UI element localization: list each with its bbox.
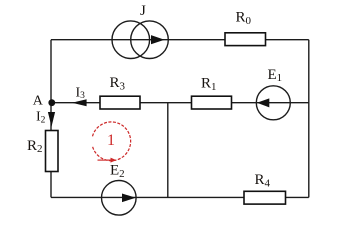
svg-text:I3: I3 xyxy=(76,85,86,101)
svg-text:R3: R3 xyxy=(110,75,126,93)
source E1 xyxy=(256,86,290,120)
svg-text:A: A xyxy=(33,94,44,109)
resistor R2 xyxy=(46,131,59,172)
svg-text:R2: R2 xyxy=(27,138,43,155)
svg-text:E2: E2 xyxy=(110,163,125,181)
svg-text:E1: E1 xyxy=(268,67,283,84)
svg-text:R0: R0 xyxy=(236,9,252,27)
svg-text:R4: R4 xyxy=(255,172,271,190)
wire middle horizontal xyxy=(51,102,309,104)
svg-text:I2: I2 xyxy=(36,110,46,126)
wire middle vertical xyxy=(167,103,169,198)
wire bottom xyxy=(51,196,309,198)
source E2 xyxy=(102,181,137,216)
resistor R0 xyxy=(225,33,266,46)
node A xyxy=(48,99,55,106)
wire left xyxy=(50,40,52,198)
svg-text:R1: R1 xyxy=(201,76,217,94)
loop 1 xyxy=(93,122,131,163)
resistor R3 xyxy=(100,96,140,109)
resistor R4 xyxy=(244,191,286,204)
svg-text:1: 1 xyxy=(107,132,115,149)
arrow I2 xyxy=(48,112,55,127)
arrow I3 xyxy=(72,99,87,106)
resistor R1 xyxy=(192,96,232,109)
svg-text:J: J xyxy=(140,3,146,19)
current source J xyxy=(112,21,168,59)
wire top xyxy=(51,39,309,41)
wire right xyxy=(308,40,310,198)
